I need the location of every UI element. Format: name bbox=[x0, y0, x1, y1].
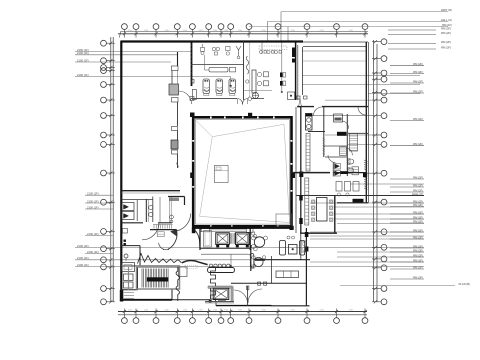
svg-text:RM (2F): RM (2F) bbox=[413, 188, 423, 192]
right label 19 bbox=[390, 256, 424, 258]
kitchen east fixture bbox=[301, 241, 306, 252]
grid bubble bottom 13 bbox=[362, 318, 368, 324]
grid bubble bottom 10 bbox=[275, 318, 281, 324]
corridor bracket 1 bbox=[172, 66, 179, 71]
toilet fixture 3 bbox=[229, 79, 236, 94]
lobby left door leaf bbox=[168, 231, 177, 249]
left label 3 bbox=[75, 61, 171, 63]
wing comb small 2 bbox=[352, 167, 359, 175]
ll fixture rect 1 bbox=[124, 274, 134, 281]
ll vestibule bbox=[122, 263, 135, 272]
kitchen small circles bbox=[287, 236, 290, 239]
svg-text:RM (2F): RM (2F) bbox=[413, 142, 423, 146]
leader line 3 bbox=[302, 84, 420, 86]
grid bubble top 7 bbox=[218, 24, 224, 30]
svg-text:2700: 2700 bbox=[198, 309, 202, 311]
ll room2 walls bbox=[137, 267, 139, 290]
svg-text:2100 (1F): 2100 (1F) bbox=[87, 199, 99, 203]
corridor gray door bbox=[169, 84, 179, 95]
elevator shaft 1 bbox=[216, 233, 230, 245]
hall ceiling quad bbox=[200, 124, 290, 222]
cafe chairs row bbox=[259, 50, 262, 53]
outer wall south-right bbox=[271, 305, 310, 307]
shaft hatch bbox=[230, 233, 232, 244]
grid bubble bottom 9 bbox=[246, 318, 252, 324]
svg-text:RM (2F): RM (2F) bbox=[413, 175, 423, 179]
corridor bracket 3 bbox=[172, 127, 178, 131]
round table 2 bbox=[254, 257, 263, 266]
sofa row 1 bbox=[257, 72, 261, 76]
svg-text:2100 (1F): 2100 (1F) bbox=[87, 232, 99, 236]
grid bubble top 13 bbox=[362, 24, 368, 30]
lounge east wall bbox=[295, 41, 297, 100]
column circle cross bbox=[253, 93, 259, 99]
south step connector bbox=[215, 302, 217, 306]
conference table bbox=[317, 198, 328, 222]
svg-text:2100 (1F): 2100 (1F) bbox=[77, 256, 89, 260]
leader line 16 bbox=[337, 256, 424, 258]
grid bubble right 10 bbox=[381, 170, 387, 176]
door arcs south bbox=[234, 290, 248, 304]
left label 5 bbox=[85, 194, 113, 196]
left label 2 bbox=[75, 54, 178, 56]
grid bubble left 10 bbox=[101, 170, 107, 176]
wing west wall bbox=[300, 107, 302, 233]
central hall walls bbox=[193, 117, 291, 226]
wing wc fixtures bbox=[336, 182, 342, 192]
ll fixture circle bbox=[124, 254, 128, 258]
leader line top-right 1 bbox=[281, 11, 448, 13]
fridge 1 bbox=[280, 241, 286, 256]
grid bubble left 6 bbox=[101, 97, 107, 103]
sw door wall bbox=[121, 222, 143, 224]
svg-text:PLAN (B): PLAN (B) bbox=[459, 282, 470, 286]
grid bubble bottom 2 bbox=[133, 318, 139, 324]
svg-text:2700: 2700 bbox=[349, 30, 353, 32]
wing label box bbox=[337, 132, 347, 136]
east blob leader bbox=[368, 172, 381, 174]
corridor bracket 4 bbox=[172, 150, 178, 154]
leader line top-right 3 bbox=[249, 26, 448, 28]
right label 16 bbox=[390, 238, 424, 240]
washroom west wall bbox=[191, 41, 193, 86]
east wall black blob bbox=[363, 172, 367, 177]
right label 6 bbox=[390, 145, 424, 147]
bottom right far label bbox=[340, 285, 455, 287]
grid bubble right 17 bbox=[381, 299, 387, 305]
svg-text:2700: 2700 bbox=[213, 309, 217, 311]
right label hi 3 bbox=[388, 43, 436, 45]
round table 1 bbox=[254, 237, 264, 247]
svg-text:2700: 2700 bbox=[183, 30, 187, 32]
svg-text:RM (2F): RM (2F) bbox=[441, 31, 451, 35]
leader line 4 bbox=[368, 93, 420, 95]
wash counter bbox=[209, 67, 228, 72]
grid bubble right 16 bbox=[381, 286, 387, 292]
leader line 17 bbox=[325, 99, 381, 101]
washroom door swing bbox=[179, 91, 192, 104]
grid bubble right 9 bbox=[381, 142, 387, 148]
leader line top-right 2 bbox=[268, 21, 449, 23]
pantry wall bbox=[250, 245, 252, 271]
right label 7 bbox=[390, 178, 424, 180]
lounge south line bbox=[244, 90, 273, 92]
right label hi 1 bbox=[388, 29, 436, 31]
wing shelf column 2 bbox=[305, 178, 309, 225]
sw corner black bbox=[120, 290, 124, 302]
sw bottom step bbox=[171, 290, 173, 301]
pantry bench bbox=[250, 254, 254, 269]
grid bubble bottom 11 bbox=[304, 318, 310, 324]
vertical leader x262 bbox=[261, 42, 263, 55]
stair treads bbox=[141, 269, 143, 288]
door pivot square bbox=[288, 92, 295, 100]
shaft3 gray band bbox=[208, 286, 233, 288]
stair black band bbox=[147, 277, 169, 281]
kitchen south wall bbox=[255, 259, 310, 261]
wing door arc 3 bbox=[347, 148, 353, 155]
grid bubble left 15 bbox=[101, 264, 107, 270]
leader line 2 bbox=[302, 75, 420, 77]
grid bubble right 15 bbox=[381, 265, 387, 271]
svg-text:HALL (X): HALL (X) bbox=[412, 192, 423, 196]
leader line 19 bbox=[325, 134, 381, 136]
right label 4 bbox=[390, 92, 424, 94]
svg-text:RM (2F): RM (2F) bbox=[413, 265, 423, 269]
grid bubble right 13 bbox=[381, 244, 387, 250]
grid bubble left 7 bbox=[101, 113, 107, 119]
wing wall v1 bbox=[323, 107, 325, 157]
right label 20 bbox=[390, 261, 424, 263]
right label dark bbox=[296, 195, 424, 197]
top-right room line 61 bbox=[303, 60, 367, 62]
svg-text:2700: 2700 bbox=[238, 309, 242, 311]
grid bubble right 14 bbox=[381, 256, 387, 262]
wing toilet 1 bbox=[348, 159, 354, 164]
svg-text:RM (2F): RM (2F) bbox=[413, 117, 423, 121]
outer wall east bbox=[365, 42, 367, 203]
grid bubble left 2 bbox=[101, 58, 107, 64]
ramp zigzag bbox=[138, 254, 182, 264]
washroom door frame bbox=[192, 90, 196, 100]
right label 11 bbox=[390, 206, 424, 208]
grid bubble bottom 3 bbox=[153, 318, 159, 324]
svg-text:RM (1F): RM (1F) bbox=[442, 23, 452, 27]
wing door arc 1 bbox=[342, 121, 349, 129]
grid bubble right 12 bbox=[381, 229, 387, 235]
curved desk bbox=[182, 261, 208, 265]
svg-text:2700: 2700 bbox=[224, 309, 228, 311]
wing top door arc bbox=[314, 107, 323, 116]
wing door arc 2 bbox=[328, 155, 336, 163]
elevator shaft 2 bbox=[235, 233, 249, 245]
wing wall v2 bbox=[346, 114, 348, 176]
ll threshold marks bbox=[124, 292, 134, 294]
grid bubble top 10 bbox=[275, 24, 281, 30]
svg-text:2700: 2700 bbox=[261, 30, 265, 32]
small door leaf bbox=[159, 243, 165, 250]
grid bubble top 2 bbox=[133, 24, 139, 30]
toilet fixture 2 bbox=[216, 79, 223, 94]
grid bubble left 11 bbox=[101, 199, 107, 205]
grid bubble top 1 bbox=[122, 24, 128, 30]
vertical leader x281 bbox=[280, 12, 282, 42]
corridor wall mid1 bbox=[171, 71, 173, 85]
dining south wall bbox=[231, 282, 306, 284]
kitchen east wall bbox=[305, 228, 307, 306]
hall entry arc bbox=[173, 214, 191, 232]
right label 18 bbox=[390, 251, 424, 253]
right label 13 bbox=[390, 218, 424, 220]
sw stall top wall bbox=[121, 199, 153, 201]
sofa row 2 bbox=[257, 81, 261, 85]
outer wall south-center bbox=[216, 305, 272, 307]
right label hi 4 bbox=[388, 48, 436, 50]
svg-text:RM (2F): RM (2F) bbox=[441, 26, 451, 30]
svg-text:2700: 2700 bbox=[198, 30, 202, 32]
svg-text:RM (2F): RM (2F) bbox=[413, 62, 423, 66]
kitchen north wall bbox=[192, 226, 292, 228]
washroom divider bbox=[192, 64, 244, 66]
front south door frames bbox=[190, 97, 194, 101]
wing sink bbox=[334, 114, 343, 122]
elevator shaft 3 bbox=[213, 288, 229, 299]
wing toilet 2 bbox=[348, 168, 354, 173]
grid bubble bottom 1 bbox=[122, 318, 128, 324]
left label 4 bbox=[75, 76, 231, 78]
ll fixture rect 2 bbox=[124, 282, 134, 288]
svg-text:2700: 2700 bbox=[213, 30, 217, 32]
svg-text:RM (2F): RM (2F) bbox=[441, 45, 451, 49]
insulated wall bbox=[150, 229, 177, 231]
plumbing fixture 1 bbox=[201, 48, 205, 52]
wall break symbol bbox=[246, 56, 249, 74]
grid bubble bottom 4 bbox=[174, 318, 180, 324]
right label 15 bbox=[390, 231, 424, 233]
leader line 9 bbox=[310, 231, 424, 233]
grid bubble right 5 bbox=[381, 90, 387, 96]
svg-text:2100 (1F): 2100 (1F) bbox=[77, 58, 89, 62]
vertical leader x288 bbox=[287, 27, 289, 42]
sw sinks bbox=[149, 206, 153, 210]
grid bubble bottom 8 bbox=[228, 318, 234, 324]
wing comb small bbox=[340, 147, 347, 156]
cafe cabinet dashed bbox=[259, 46, 287, 50]
right label 14 bbox=[390, 222, 424, 224]
leader line 7 bbox=[334, 218, 424, 220]
wing south wall bbox=[300, 232, 337, 234]
grid bubble left 1 bbox=[101, 40, 107, 46]
sw wash wall bbox=[145, 199, 147, 222]
wall end wedge bbox=[171, 230, 177, 237]
plumbing fixture 4 bbox=[236, 46, 241, 50]
lower room wall bbox=[247, 286, 249, 306]
grid bubble left 4 bbox=[101, 68, 107, 74]
hall stage table bbox=[214, 166, 228, 183]
grid bubble right 4 bbox=[381, 76, 387, 82]
front block south wall bbox=[191, 98, 237, 100]
top dimension line bbox=[121, 31, 369, 33]
wing wall h3 bbox=[291, 172, 330, 174]
grid bubble top 11 bbox=[304, 24, 310, 30]
svg-text:2700: 2700 bbox=[144, 309, 148, 311]
kitchen black node bbox=[290, 226, 294, 230]
grid bubble right 7 bbox=[381, 113, 387, 119]
leader line 15 bbox=[310, 235, 424, 237]
right label 17 bbox=[390, 247, 424, 249]
wing east lower wall bbox=[334, 195, 336, 233]
grid bubble top 6 bbox=[206, 24, 212, 30]
wing top door arc 2 bbox=[358, 107, 366, 115]
crenellated wall left bbox=[176, 267, 180, 301]
vertical leader x281b bbox=[281, 42, 283, 93]
svg-text:2700: 2700 bbox=[128, 30, 132, 32]
wing north wall bbox=[297, 106, 314, 108]
right label 12 bbox=[390, 213, 424, 215]
counter bar bbox=[208, 268, 235, 273]
grid bubble bottom 6 bbox=[206, 318, 212, 324]
hall corner rect bbox=[276, 214, 291, 226]
hall sw corner black bbox=[192, 227, 196, 233]
toilet fixture 1 bbox=[203, 79, 210, 94]
wing wall h157 bbox=[325, 156, 347, 158]
corridor wall upper bbox=[177, 52, 179, 66]
lounge east wall black bbox=[292, 48, 295, 58]
leader line 14 bbox=[334, 206, 424, 208]
sw wall h1 bbox=[121, 190, 180, 192]
sw vestibule lines bbox=[169, 197, 171, 223]
right label 22 bbox=[390, 278, 424, 280]
bank top wall bbox=[200, 227, 251, 229]
right label 21 bbox=[390, 268, 424, 270]
right label 10 bbox=[390, 202, 424, 204]
south kitchen counters bbox=[276, 271, 299, 278]
kitchen box bbox=[289, 245, 298, 255]
grid bubble top 8 bbox=[228, 24, 234, 30]
right label 9 bbox=[390, 191, 424, 193]
svg-text:2100 (1F): 2100 (1F) bbox=[87, 205, 99, 209]
ll room walls bbox=[121, 245, 140, 247]
lobby line bbox=[201, 253, 248, 255]
hall pilasters bbox=[190, 113, 195, 118]
svg-text:2100 (1F): 2100 (1F) bbox=[87, 250, 99, 254]
svg-text:RM (2F): RM (2F) bbox=[413, 219, 423, 223]
conference chairs bbox=[312, 200, 315, 203]
grid bubble top 4 bbox=[174, 24, 180, 30]
svg-text:RM (2F): RM (2F) bbox=[413, 79, 423, 83]
svg-text:2700: 2700 bbox=[128, 309, 132, 311]
svg-text:HALL (G): HALL (G) bbox=[441, 18, 452, 22]
stair enclosure bbox=[137, 267, 180, 289]
leader line 1 bbox=[302, 50, 366, 52]
svg-text:2100 (1F): 2100 (1F) bbox=[87, 192, 99, 196]
shaft feet bbox=[216, 245, 219, 248]
bottom dimension line bbox=[118, 311, 367, 313]
shaft3 left bracket bbox=[210, 289, 212, 300]
right dimension line bbox=[373, 40, 375, 302]
washroom mid wall bbox=[243, 41, 245, 100]
right label 3 bbox=[390, 82, 424, 84]
wing wall h2 bbox=[348, 132, 368, 134]
svg-text:2700: 2700 bbox=[349, 309, 353, 311]
grid bubble right 1 bbox=[381, 39, 387, 45]
grid bubble left 12 bbox=[101, 229, 107, 235]
left label 12 bbox=[75, 266, 424, 268]
left label 7 bbox=[85, 208, 113, 210]
right label hi 2 bbox=[388, 34, 436, 36]
leader line 5 bbox=[310, 202, 424, 204]
leader line 8 bbox=[337, 223, 424, 225]
svg-text:RM (2F): RM (2F) bbox=[413, 70, 423, 74]
leader line 11 bbox=[337, 251, 424, 253]
outer wall north bbox=[121, 40, 304, 42]
sw L wall bbox=[168, 196, 185, 198]
cabinet marks bbox=[280, 73, 283, 78]
right label 2 bbox=[390, 73, 424, 75]
svg-text:2100 (1F): 2100 (1F) bbox=[77, 73, 89, 77]
svg-text:2700: 2700 bbox=[320, 30, 324, 32]
desk dashed shelf bbox=[185, 265, 197, 268]
sw door arc bbox=[142, 223, 159, 240]
plumbing fixture 2 bbox=[212, 47, 216, 51]
sw bottom seg2 bbox=[172, 299, 210, 301]
grid bubble bottom 12 bbox=[334, 318, 340, 324]
hall sw door arc bbox=[194, 230, 200, 248]
grid bubble top 9 bbox=[246, 24, 252, 30]
vestibule circles bbox=[170, 215, 174, 219]
svg-text:2700: 2700 bbox=[183, 309, 187, 311]
grid bubble left 9 bbox=[101, 142, 107, 148]
right label 8 bbox=[390, 186, 424, 188]
vertical leader x249 bbox=[249, 42, 251, 97]
grid bubble right 11 bbox=[381, 199, 387, 205]
corridor bracket 2 bbox=[172, 98, 179, 103]
pipe chase bbox=[306, 114, 313, 131]
svg-text:RM (2F): RM (2F) bbox=[413, 203, 423, 207]
outer wall north-right upper bbox=[303, 41, 368, 43]
grid bubble right 2 bbox=[381, 56, 387, 62]
window box bbox=[157, 232, 164, 237]
sw wash wall2 bbox=[152, 197, 154, 223]
left label 10 bbox=[75, 247, 424, 249]
leader line 10 bbox=[310, 238, 424, 240]
bank left wall bbox=[199, 228, 201, 250]
stair west gray wall bbox=[128, 267, 130, 290]
wing wc stalls bbox=[334, 164, 341, 170]
corridor wall lower bbox=[177, 131, 179, 141]
fridge 2 bbox=[300, 241, 305, 256]
grid bubble left 8 bbox=[101, 132, 107, 138]
svg-text:WAIT (R): WAIT (R) bbox=[441, 8, 452, 12]
sw stall 2 bbox=[122, 212, 134, 220]
left label 11 bbox=[75, 259, 250, 261]
shaft3 south wall bbox=[205, 301, 234, 303]
grid bubble left 16 bbox=[101, 286, 107, 292]
left label 8 bbox=[85, 235, 113, 237]
wing wall h2b bbox=[324, 145, 348, 147]
hall inner face bbox=[195, 120, 289, 225]
left label 9 bbox=[85, 253, 113, 255]
svg-text:2700: 2700 bbox=[165, 30, 169, 32]
svg-text:RM (2F): RM (2F) bbox=[413, 89, 423, 93]
wing wall h1 bbox=[308, 131, 325, 133]
hall wall white gaps bbox=[210, 116, 212, 118]
bank inner door bbox=[204, 231, 212, 248]
corridor dark box bbox=[171, 140, 178, 149]
svg-text:RM (2F): RM (2F) bbox=[441, 40, 451, 44]
grid bubble top 5 bbox=[190, 24, 196, 30]
vertical leader x267 bbox=[267, 22, 269, 42]
